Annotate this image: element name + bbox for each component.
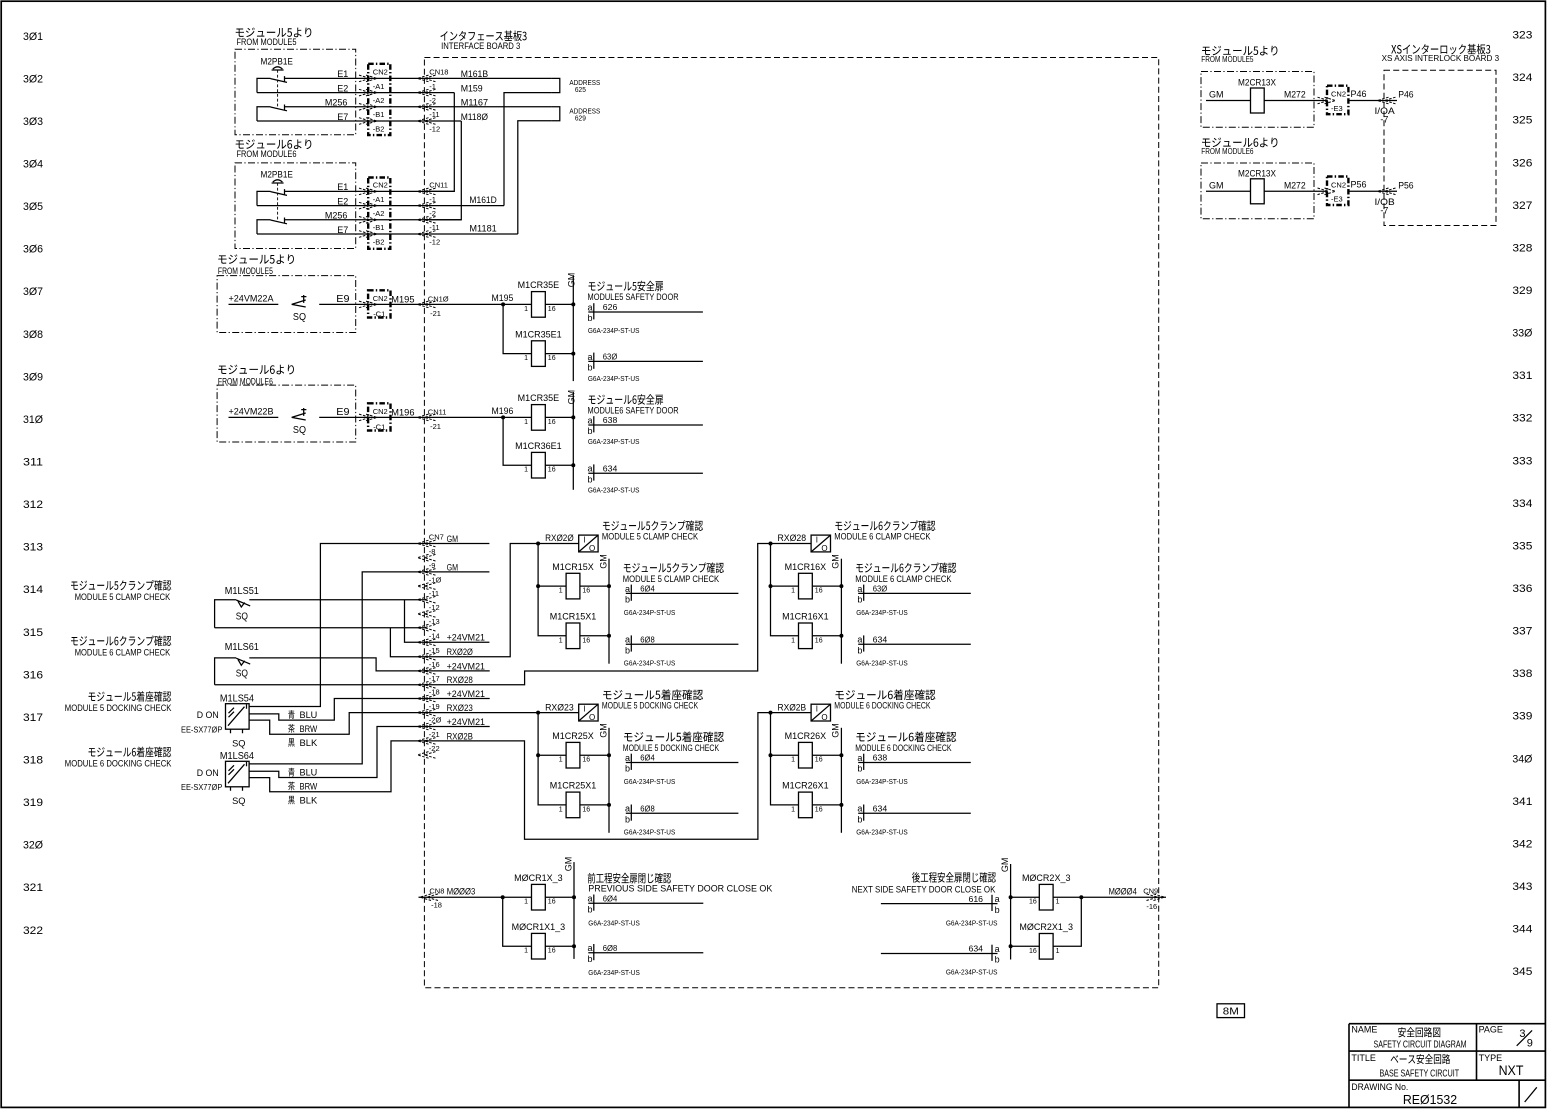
svg-text:-11: -11 [429, 589, 439, 598]
svg-text:b: b [588, 363, 593, 373]
svg-text:6Ø4: 6Ø4 [603, 895, 618, 904]
svg-text:334: 334 [1512, 498, 1532, 510]
svg-text:G6A-234P-ST-US: G6A-234P-ST-US [588, 968, 640, 977]
svg-text:a: a [588, 302, 593, 312]
svg-text:337: 337 [1512, 626, 1532, 638]
svg-text:1: 1 [524, 419, 528, 426]
svg-text:M2CR13X: M2CR13X [1238, 169, 1276, 179]
svg-text:M1CR16X: M1CR16X [785, 562, 827, 572]
svg-text:GM: GM [598, 723, 608, 738]
svg-text:CN9: CN9 [1143, 886, 1158, 895]
svg-text:-1: -1 [429, 195, 436, 204]
svg-text:MODULE 6 DOCKING CHECK: MODULE 6 DOCKING CHECK [65, 759, 172, 770]
svg-text:327: 327 [1512, 200, 1532, 212]
relay coil M0CR1X_3 [532, 884, 546, 910]
wire GM to relay [1206, 190, 1251, 192]
wire GM to relay M0CR2X_3 [1011, 896, 1040, 898]
module5 source box (dash-dot) [1201, 72, 1314, 128]
svg-text:EE-SX77ØP: EE-SX77ØP [181, 725, 222, 734]
svg-text:CN11: CN11 [429, 181, 448, 190]
wire RX028 to I/O box [771, 543, 812, 545]
svg-text:-15: -15 [429, 646, 440, 655]
svg-text:1: 1 [1056, 899, 1060, 906]
svg-text:1: 1 [559, 637, 563, 644]
mechanical link (dashed) [277, 70, 279, 108]
pushbutton actuator (mushroom head) [272, 67, 284, 70]
connector pin chevrons CN2 [359, 89, 377, 96]
svg-text:M2CR13X: M2CR13X [1238, 78, 1276, 88]
svg-text:M161D: M161D [469, 195, 497, 206]
svg-text:INTERFACE BOARD 3: INTERFACE BOARD 3 [441, 41, 520, 51]
wire M195 into board [426, 303, 532, 305]
svg-text:G6A-234P-ST-US: G6A-234P-ST-US [624, 608, 676, 617]
svg-text:MODULE 6 CLAMP CHECK: MODULE 6 CLAMP CHECK [75, 648, 171, 659]
wire stub GM (CN7) [426, 543, 489, 545]
relay coil M1CR35E1 [532, 341, 546, 367]
svg-text:6Ø4: 6Ø4 [640, 585, 655, 594]
connector pin chevrons CN2 [359, 231, 377, 238]
wire E1 [285, 190, 455, 192]
svg-text:16: 16 [815, 588, 823, 595]
svg-text:311: 311 [23, 457, 43, 469]
svg-text:-16: -16 [1146, 902, 1157, 911]
svg-text:REØ1532: REØ1532 [1403, 1092, 1457, 1107]
wire E1 loop [257, 78, 271, 92]
svg-text:-8: -8 [429, 547, 436, 556]
svg-text:TITLE: TITLE [1351, 1053, 1376, 1063]
svg-text:E9: E9 [336, 406, 349, 418]
wire E2 [257, 205, 504, 207]
svg-text:325: 325 [1512, 115, 1532, 127]
GM bus [840, 728, 842, 833]
svg-text:3Ø7: 3Ø7 [23, 286, 43, 298]
svg-text:M256: M256 [325, 98, 348, 108]
svg-text:BASE SAFETY CIRCUIT: BASE SAFETY CIRCUIT [1380, 1067, 1460, 1079]
wire GM to relay M0CR2X1_3 [1011, 945, 1040, 947]
svg-text:1: 1 [1056, 948, 1060, 955]
pin chevrons CN11 [418, 414, 436, 421]
wire stub +24VM21 (-18) [426, 698, 490, 700]
svg-text:RXØ23: RXØ23 [545, 702, 574, 713]
svg-text:RXØ2B: RXØ2B [778, 702, 807, 713]
svg-text:GM: GM [598, 554, 608, 569]
svg-text:6Ø8: 6Ø8 [640, 635, 655, 644]
svg-text:16: 16 [548, 419, 556, 426]
GM bus [608, 728, 610, 833]
svg-text:315: 315 [23, 627, 43, 639]
svg-text:G6A-234P-ST-US: G6A-234P-ST-US [856, 659, 908, 668]
marker 8M [1217, 1004, 1245, 1018]
svg-text:a: a [588, 943, 593, 953]
wire sensor M1LS64 BLU to CN7-20 [249, 727, 426, 778]
wire E7 [257, 120, 461, 122]
relay1 to GM [580, 754, 609, 756]
svg-text:16: 16 [548, 948, 556, 955]
wire RX020 from CN7-15 [426, 544, 538, 657]
svg-text:b: b [857, 595, 862, 605]
wire RX020 to I/O box [538, 543, 579, 545]
svg-text:-13: -13 [429, 617, 440, 626]
svg-text:63Ø: 63Ø [873, 585, 888, 594]
svg-text:M256: M256 [325, 211, 348, 221]
wire E2 [257, 92, 454, 94]
label: previous side safety door close OK [588, 873, 671, 884]
wire RX028 from CN7-17 [426, 544, 771, 685]
relay coil M1CR35E [532, 292, 546, 318]
svg-text:-7: -7 [1380, 205, 1388, 215]
svg-text:MODULE 5 CLAMP CHECK: MODULE 5 CLAMP CHECK [602, 532, 699, 543]
riser M0CR2X1_3 to output [1053, 897, 1081, 946]
wire M1LS51 to CN7-11 [249, 599, 426, 601]
connector CN9 chevron [1147, 894, 1165, 901]
svg-text:1: 1 [559, 757, 563, 764]
svg-text:-12: -12 [429, 124, 440, 133]
svg-text:G6A-234P-ST-US: G6A-234P-ST-US [946, 968, 998, 977]
svg-text:634: 634 [873, 635, 888, 644]
svg-text:O: O [589, 713, 595, 722]
svg-text:3Ø8: 3Ø8 [23, 329, 43, 341]
svg-text:O: O [589, 544, 595, 553]
right margin row numbers 323-345 [1512, 30, 1532, 979]
wire RX02B from CN7-21 [426, 713, 771, 840]
wire M1180 riser to CN11-2 [426, 121, 461, 220]
svg-text:P56: P56 [1398, 180, 1413, 190]
svg-text:331: 331 [1512, 370, 1532, 382]
wire M0003 [419, 896, 532, 898]
svg-text:MODULE 6 CLAMP CHECK: MODULE 6 CLAMP CHECK [834, 532, 931, 543]
svg-text:G6A-234P-ST-US: G6A-234P-ST-US [588, 918, 640, 927]
svg-text:34Ø: 34Ø [1512, 753, 1532, 765]
relay1 to GM [580, 585, 609, 587]
svg-text:-11: -11 [429, 223, 439, 232]
svg-text:a: a [995, 944, 1000, 954]
svg-text:MODULE 5 CLAMP CHECK: MODULE 5 CLAMP CHECK [623, 574, 720, 585]
svg-text:FROM MODULE6: FROM MODULE6 [237, 149, 297, 159]
svg-text:b: b [857, 815, 862, 825]
svg-text:G6A-234P-ST-US: G6A-234P-ST-US [856, 777, 908, 786]
RX028 feed riser [771, 544, 799, 636]
svg-text:EE-SX77ØP: EE-SX77ØP [181, 783, 222, 792]
wire M272 [1264, 190, 1327, 192]
svg-text:SQ: SQ [236, 611, 248, 623]
svg-text:319: 319 [23, 797, 43, 809]
wire E7 [257, 233, 518, 235]
svg-text:-19: -19 [429, 702, 440, 711]
svg-text:634: 634 [603, 464, 618, 473]
svg-text:16: 16 [548, 467, 556, 474]
pin chevrons CN2-E3 [1318, 97, 1336, 104]
svg-text:b: b [625, 595, 630, 605]
relay coil M2CR13X [1251, 88, 1265, 113]
svg-text:MØØØ4: MØØØ4 [1109, 887, 1137, 898]
svg-text:MØCR2X_3: MØCR2X_3 [1022, 873, 1071, 883]
svg-text:16: 16 [1029, 948, 1037, 955]
branch to CN7-14 (+24VM21) [405, 600, 427, 643]
svg-text:MODULE 5 DOCKING CHECK: MODULE 5 DOCKING CHECK [623, 743, 720, 754]
svg-text:616: 616 [969, 895, 984, 904]
svg-text:-A1: -A1 [373, 195, 385, 204]
GM bus (next door) [1010, 864, 1012, 960]
relay coil M1CR25X1 [566, 792, 580, 818]
connector pin chevrons CN2 [359, 202, 377, 209]
svg-text:G6A-234P-ST-US: G6A-234P-ST-US [624, 828, 676, 837]
svg-text:G6A-234P-ST-US: G6A-234P-ST-US [624, 777, 676, 786]
svg-text:16: 16 [582, 806, 590, 813]
svg-text:16: 16 [815, 757, 823, 764]
label: MODULE 6 DOCKING CHECK (top) [836, 689, 936, 700]
relay coil M1CR15X1 [566, 623, 580, 649]
svg-text:324: 324 [1512, 72, 1532, 84]
svg-text:MODULE 5 DOCKING CHECK: MODULE 5 DOCKING CHECK [65, 703, 172, 714]
wire sensor M1LS64 to CN7-9 (GM) [249, 572, 426, 764]
svg-text:-E3: -E3 [1331, 195, 1343, 204]
svg-text:D ON: D ON [197, 710, 219, 720]
connector CN2 (dash-dot housing) [368, 178, 390, 249]
svg-text:a: a [857, 584, 862, 594]
svg-text:CN2: CN2 [373, 294, 388, 303]
svg-text:D ON: D ON [197, 768, 219, 778]
wire to relay M1CR35E [545, 303, 573, 305]
GM bus (module6 safety door) [572, 392, 574, 490]
svg-text:G6A-234P-ST-US: G6A-234P-ST-US [856, 828, 908, 837]
svg-text:CN8: CN8 [429, 886, 444, 895]
wire M256 [285, 106, 552, 108]
svg-text:M1CR15X: M1CR15X [552, 562, 594, 572]
connector pin chevrons CN2 [359, 188, 377, 195]
relay coil M1CR15X [566, 573, 580, 599]
svg-text:M159: M159 [461, 83, 483, 94]
svg-text:BLU: BLU [300, 768, 318, 778]
svg-text:NAME: NAME [1351, 1024, 1377, 1034]
label: MODULE 5 CLAMP CHECK (side) [624, 562, 724, 573]
svg-text:P46: P46 [1398, 90, 1413, 100]
label: module 6 clamp check [71, 636, 171, 647]
label: XS axis interlock board 3 [1391, 44, 1490, 55]
svg-text:MØØØ3: MØØØ3 [447, 887, 476, 898]
svg-text:-21: -21 [430, 309, 441, 318]
svg-text:-1Ø: -1Ø [429, 575, 442, 584]
svg-text:a: a [625, 635, 630, 645]
switch contact (SQ) [292, 408, 307, 420]
svg-text:PAGE: PAGE [1479, 1024, 1503, 1034]
svg-text:6Ø8: 6Ø8 [603, 944, 618, 953]
svg-text:326: 326 [1512, 157, 1532, 169]
svg-text:b: b [857, 764, 862, 774]
svg-text:G6A-234P-ST-US: G6A-234P-ST-US [588, 374, 640, 383]
wire M1181 riser to address 629 [518, 121, 552, 234]
label: from module5 [218, 254, 294, 264]
wire to switch [229, 416, 279, 418]
svg-text:RXØ28: RXØ28 [778, 533, 807, 544]
svg-text:BLU: BLU [300, 710, 318, 720]
wire E1 loop [257, 191, 271, 205]
svg-text:P56: P56 [1351, 180, 1367, 190]
svg-text:M1CR15X1: M1CR15X1 [550, 612, 597, 622]
svg-text:G6A-234P-ST-US: G6A-234P-ST-US [856, 608, 908, 617]
svg-text:-2: -2 [429, 209, 436, 218]
module5 source box (dash-dot) [235, 49, 356, 135]
label: from module5 [236, 28, 312, 38]
svg-text:M1CR35E: M1CR35E [518, 280, 560, 290]
svg-text:a: a [625, 804, 630, 814]
svg-text:16: 16 [582, 757, 590, 764]
svg-text:312: 312 [23, 499, 43, 511]
module6 source box (dash-dot) [217, 385, 356, 442]
connector pin chevrons CN2 [359, 118, 377, 125]
RX02B feed riser [771, 713, 799, 805]
svg-text:MØCR2X1_3: MØCR2X1_3 [1019, 922, 1073, 932]
svg-text:SQ: SQ [232, 738, 245, 748]
svg-text:CN2: CN2 [1331, 181, 1346, 190]
svg-text:G6A-234P-ST-US: G6A-234P-ST-US [946, 918, 998, 927]
relay coil M1CR36E1 [532, 452, 546, 478]
address 625 bracket [552, 78, 560, 92]
svg-text:I: I [816, 536, 818, 545]
wire M1LS51 return to CN7-13 [215, 627, 426, 629]
svg-text:638: 638 [873, 754, 888, 763]
svg-text:b: b [588, 474, 593, 484]
branch to M0CR1X1_3 [503, 897, 532, 946]
svg-text:M196: M196 [391, 407, 414, 418]
svg-text:333: 333 [1512, 455, 1532, 467]
switch contact blade [271, 76, 288, 82]
label: MODULE 5 DOCKING CHECK (top) [603, 689, 703, 700]
svg-text:MODULE 6 DOCKING CHECK: MODULE 6 DOCKING CHECK [855, 743, 952, 754]
pin chevrons CN2-C1 [359, 414, 377, 421]
relay coil M1CR16X [799, 573, 813, 599]
svg-text:SQ: SQ [232, 796, 245, 806]
wire M272 [1264, 100, 1327, 102]
svg-text:BRW: BRW [300, 782, 318, 792]
svg-text:MODULE 5 DOCKING CHECK: MODULE 5 DOCKING CHECK [602, 701, 699, 712]
svg-text:b: b [625, 645, 630, 655]
svg-text:1: 1 [524, 948, 528, 955]
limit switch blade [236, 600, 250, 607]
svg-text:329: 329 [1512, 285, 1532, 297]
svg-text:b: b [995, 955, 1000, 965]
connector pin chevrons CN2 [359, 217, 377, 224]
svg-text:BRW: BRW [300, 724, 318, 734]
left margin row numbers 301-322 [23, 31, 43, 937]
svg-text:638: 638 [603, 416, 618, 425]
svg-text:634: 634 [969, 945, 984, 954]
svg-text:XS AXIS INTERLOCK BOARD 3: XS AXIS INTERLOCK BOARD 3 [1382, 54, 1500, 63]
svg-text:SQ: SQ [293, 424, 306, 436]
svg-text:GM: GM [563, 857, 573, 872]
branch to CN7-15 (RX020) [390, 628, 426, 657]
label: MODULE 6 DOCKING CHECK (side) [856, 731, 956, 742]
svg-text:1: 1 [524, 355, 528, 362]
svg-text:M1CR35E1: M1CR35E1 [515, 329, 562, 339]
svg-text:3Ø1: 3Ø1 [23, 31, 43, 43]
svg-text:GM: GM [831, 554, 841, 569]
svg-text:323: 323 [1512, 30, 1532, 42]
label: from module6 [218, 365, 294, 375]
svg-text:a: a [625, 584, 630, 594]
wire RX023 to I/O box [538, 712, 579, 714]
svg-text:b: b [857, 645, 862, 655]
svg-text:1: 1 [559, 806, 563, 813]
svg-text:-C1: -C1 [373, 423, 385, 432]
svg-text:-7: -7 [1380, 115, 1388, 125]
connector CN2-E3 (dash-dot housing) [1327, 177, 1348, 206]
wire M1CR35E1 to GM bus [545, 353, 573, 355]
svg-text:+24VM22A: +24VM22A [229, 294, 274, 304]
revision slash [1525, 1087, 1537, 1102]
relay coil M0CR2X1_3 [1039, 934, 1053, 960]
connector CN2-E3 (dash-dot housing) [1327, 86, 1348, 115]
switch contact blade [271, 105, 288, 111]
svg-text:SAFETY CIRCUIT DIAGRAM: SAFETY CIRCUIT DIAGRAM [1374, 1038, 1467, 1050]
branch wire to M1CR36E1 [503, 417, 531, 465]
svg-text:338: 338 [1512, 668, 1532, 680]
svg-text:PREVIOUS SIDE SAFETY DOOR CLOS: PREVIOUS SIDE SAFETY DOOR CLOSE OK [588, 884, 773, 895]
label: module 5 docking check [89, 691, 172, 702]
connector CN8 chevron [420, 894, 438, 901]
svg-text:GM: GM [831, 723, 841, 738]
label: MODULE 6 CLAMP CHECK (side) [856, 562, 956, 573]
svg-text:317: 317 [23, 712, 43, 724]
svg-text:M1LS64: M1LS64 [220, 750, 254, 762]
svg-text:I: I [583, 705, 585, 714]
svg-text:345: 345 [1512, 966, 1532, 978]
wire E9 [319, 416, 426, 418]
svg-text:G6A-234P-ST-US: G6A-234P-ST-US [588, 437, 640, 446]
branch wire to M1CR35E1 [503, 304, 531, 353]
svg-text:M2PB1E: M2PB1E [261, 169, 293, 179]
label: wire colors [288, 710, 294, 719]
relay coil M1CR26X [799, 742, 813, 768]
svg-text:NEXT SIDE SAFETY DOOR CLOSE OK: NEXT SIDE SAFETY DOOR CLOSE OK [852, 884, 996, 895]
GM bus [608, 559, 610, 664]
svg-text:M195: M195 [492, 293, 514, 304]
svg-text:b: b [995, 905, 1000, 915]
svg-text:-2: -2 [429, 96, 436, 105]
title block table [1349, 1024, 1546, 1108]
relay coil M1CR16X1 [799, 623, 813, 649]
svg-text:E7: E7 [337, 225, 348, 235]
svg-text:-A1: -A1 [373, 82, 385, 91]
svg-text:GM: GM [567, 273, 577, 288]
wire M256 [285, 219, 462, 221]
label: MODULE 6 CLAMP CHECK (top) [835, 520, 935, 531]
wire to relay 1 [538, 585, 566, 587]
svg-text:328: 328 [1512, 242, 1532, 254]
svg-text:MODULE 6 DOCKING CHECK: MODULE 6 DOCKING CHECK [834, 701, 931, 712]
svg-text:M1CR25X1: M1CR25X1 [550, 781, 597, 791]
relay2 to GM [812, 804, 841, 806]
svg-text:b: b [588, 954, 593, 964]
svg-text:MØCR1X_3: MØCR1X_3 [514, 873, 563, 883]
svg-text:E7: E7 [337, 112, 348, 122]
relay coil M2CR13X [1251, 179, 1265, 204]
svg-text:-16: -16 [429, 660, 440, 669]
svg-text:E2: E2 [337, 83, 348, 93]
wire M256 loop [257, 107, 271, 121]
svg-text:-11: -11 [429, 110, 439, 119]
wire sensor M1LS64 BRW to CN7-21 [249, 741, 426, 792]
svg-text:3Ø6: 3Ø6 [23, 244, 43, 256]
svg-text:33Ø: 33Ø [1512, 328, 1532, 340]
svg-text:8M: 8M [1223, 1005, 1239, 1017]
svg-text:b: b [588, 313, 593, 323]
svg-text:a: a [588, 415, 593, 425]
svg-text:1: 1 [791, 588, 795, 595]
label: module 5 clamp check [71, 580, 171, 591]
svg-text:3Ø2: 3Ø2 [23, 73, 43, 85]
svg-text:1: 1 [524, 899, 528, 906]
svg-text:16: 16 [815, 806, 823, 813]
